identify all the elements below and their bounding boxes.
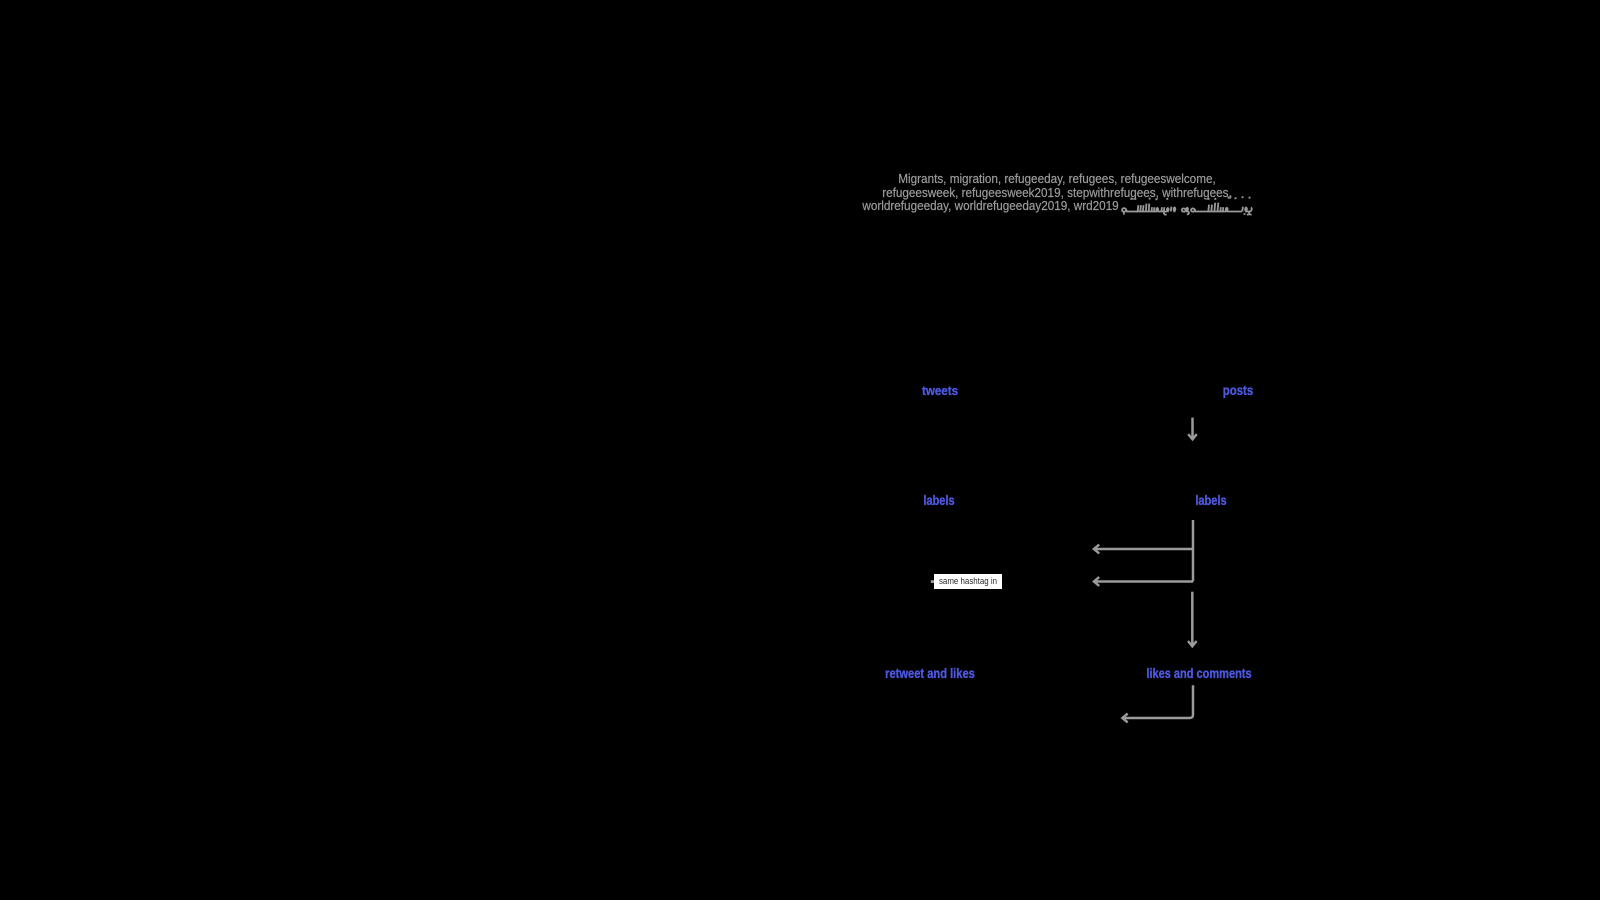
label: labels (right) xyxy=(1195,494,1226,507)
arrow A: posts down to labels xyxy=(1191,418,1194,438)
arrow C: horizontal left (upper) xyxy=(1096,548,1193,551)
white label box: same hashtag in xyxy=(934,574,1003,589)
nub left of white box xyxy=(931,580,934,583)
arrow F: elbow from likes and comments down-left xyxy=(1124,685,1193,718)
cluster 2 xyxy=(1182,208,1208,215)
label: tweets xyxy=(922,384,958,397)
kashida connector xyxy=(1126,211,1138,213)
label: retweet and likes xyxy=(885,667,975,680)
arrowhead D xyxy=(1094,577,1099,586)
hashtag list paragraph xyxy=(848,172,1265,214)
arabic hashtags (drawn) xyxy=(1118,194,1255,216)
arrow E: vertical down to likes and comments xyxy=(1191,592,1194,645)
cluster 3 xyxy=(1208,203,1235,212)
arrowhead C xyxy=(1094,545,1099,554)
cluster 4 xyxy=(1234,207,1252,215)
label: likes and comments xyxy=(1147,667,1252,680)
arrowhead F xyxy=(1122,714,1127,723)
label: labels (left) xyxy=(924,494,955,507)
arrow D: horizontal left (lower) xyxy=(1096,580,1193,581)
arrow B: vertical from labels(right) xyxy=(1192,520,1195,582)
arrowhead E xyxy=(1188,641,1197,646)
arrowhead A xyxy=(1188,434,1197,439)
meem + descender xyxy=(1122,208,1127,214)
cluster 1: teeth and loops xyxy=(1136,204,1176,215)
label: posts xyxy=(1223,384,1253,397)
